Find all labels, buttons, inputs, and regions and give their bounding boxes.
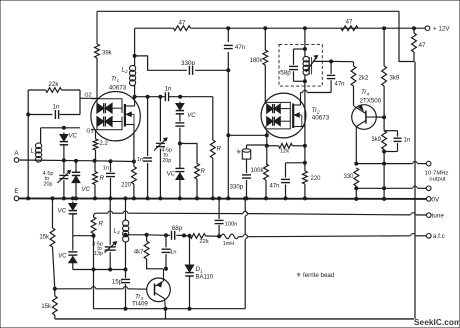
svg-text:47n: 47n <box>269 184 279 190</box>
wire +12V rail <box>135 27 425 29</box>
svg-text:2.2: 2.2 <box>100 141 109 147</box>
svg-text:R: R <box>99 221 104 228</box>
svg-text:SeekIC.com: SeekIC.com <box>414 318 460 327</box>
svg-text:330p: 330p <box>230 185 244 191</box>
capacitor 47n (rail decouple) <box>224 45 245 51</box>
wire drain node line <box>135 95 213 98</box>
wire +12V top distribution rail <box>97 11 414 61</box>
wire bottom rail <box>55 318 414 320</box>
varactor VC (input shunt) <box>72 159 91 200</box>
svg-text:330: 330 <box>343 174 354 180</box>
wire G2 lead <box>80 93 99 99</box>
svg-text:330p: 330p <box>181 60 196 67</box>
svg-text:58p: 58p <box>280 70 291 77</box>
wire RC to output <box>383 150 386 166</box>
wire G2 node vertical <box>79 90 81 115</box>
svg-text:VC: VC <box>58 254 67 260</box>
capacitor 330p (bead return) <box>230 175 251 200</box>
svg-text:22k: 22k <box>48 81 59 88</box>
note ferrite bead <box>296 271 335 279</box>
svg-text:2k2: 2k2 <box>359 76 369 82</box>
capacitor 100n <box>215 197 238 236</box>
transistor Tr1 40673 <box>91 76 140 141</box>
svg-text:✳: ✳ <box>296 271 302 279</box>
wire osc tank to Tr2 source <box>304 81 306 171</box>
svg-text:40673: 40673 <box>312 115 330 122</box>
svg-text:VC: VC <box>187 113 196 119</box>
svg-text:VC: VC <box>58 209 67 215</box>
wire left bias vertical <box>27 90 30 200</box>
wire osc riser <box>303 27 306 51</box>
wire varactor chain <box>178 128 181 167</box>
wire output line 1 <box>356 161 431 166</box>
wire 0V bus <box>17 197 429 200</box>
resistor 330 <box>343 168 358 186</box>
resistor 22k (afc) <box>184 234 221 245</box>
svg-text:E: E <box>14 188 18 195</box>
resistor 47 (right feed) <box>341 19 358 31</box>
svg-text:15p: 15p <box>112 280 123 286</box>
resistor 22k (G2 bias) <box>28 81 80 92</box>
wire Tr4 base node <box>376 116 385 131</box>
inductor L3 <box>114 197 129 242</box>
svg-text:12k: 12k <box>280 149 289 155</box>
svg-text:R: R <box>217 146 222 153</box>
wire osc af line <box>126 233 170 237</box>
varactor VC (afc lower) <box>58 236 77 270</box>
svg-text:40673: 40673 <box>109 85 127 92</box>
terminal a.f.c. <box>427 233 445 240</box>
svg-text:ferrite bead: ferrite bead <box>303 272 335 279</box>
resistor 3k9 (base) <box>371 131 386 150</box>
terminal E <box>14 188 19 201</box>
svg-text:220: 220 <box>121 183 132 189</box>
terminal A <box>14 150 19 162</box>
capacitor 1n (tank) <box>137 97 152 200</box>
wire Tr2 drain <box>301 90 332 92</box>
resistor 180k (G2 bias) <box>249 27 267 103</box>
capacitor 1n (base) <box>384 131 410 152</box>
wire tune line <box>94 211 427 218</box>
svg-text:VC: VC <box>167 172 176 178</box>
svg-text:G1: G1 <box>86 129 93 135</box>
trimmer 4.5-20p (osc) <box>154 97 172 200</box>
wire node A line <box>19 160 134 162</box>
wire Tr4 collector <box>355 131 358 165</box>
resistor 15k (lower) <box>41 287 57 319</box>
svg-text:✳: ✳ <box>236 148 242 156</box>
inductor 1mH rf choke <box>221 234 239 247</box>
varactor VC (tuning upper) <box>175 102 196 127</box>
svg-text:20p: 20p <box>44 181 53 187</box>
capacitor 1n (osc) <box>162 235 177 270</box>
svg-text:47: 47 <box>345 19 353 26</box>
svg-text:100n: 100n <box>225 222 238 228</box>
svg-text:G2: G2 <box>84 93 91 99</box>
svg-text:1n: 1n <box>52 103 60 110</box>
resistor 47 (top left feed) <box>174 20 191 31</box>
resistor R (drain node right) <box>210 97 221 200</box>
resistor 15k (upper) <box>39 197 55 289</box>
wire trimmer drop <box>109 198 111 269</box>
svg-text:+ 12V: + 12V <box>433 26 450 33</box>
wire emitter to D1 return <box>94 307 246 319</box>
oscillator screen (dashed box) <box>279 44 322 86</box>
svg-text:4k7: 4k7 <box>134 250 144 256</box>
wire L3 lower <box>125 242 127 279</box>
wire lower node <box>73 268 127 271</box>
wire Tr2 G1 to 12k <box>265 130 268 164</box>
svg-text:13p: 13p <box>94 251 103 257</box>
svg-text:68p: 68p <box>172 225 183 232</box>
transistor Tr4 2TX500 <box>352 89 382 131</box>
wire Tr3 base line <box>55 287 153 290</box>
svg-text:BA110: BA110 <box>196 275 214 281</box>
svg-text:a.f.c: a.f.c <box>433 233 445 240</box>
inductor L4 oscillator coil <box>303 49 318 83</box>
resistor 2k2 <box>351 62 369 106</box>
svg-text:15k: 15k <box>41 304 52 310</box>
resistor 39k (G2 feed) <box>95 44 113 98</box>
varactor VC (tuning lower) <box>167 167 185 200</box>
terminal 0V <box>426 196 440 203</box>
inductor L1 <box>31 128 42 162</box>
capacitor 15p <box>112 279 130 310</box>
varactor VC (input, on L1 link) <box>60 133 78 162</box>
resistor 2.2 (G1) <box>93 130 108 161</box>
svg-text:47: 47 <box>419 42 427 49</box>
svg-text:1n: 1n <box>404 138 411 144</box>
wire afc line <box>239 234 427 237</box>
label 10.7MHz output <box>425 171 449 183</box>
svg-text:47n: 47n <box>235 45 245 51</box>
wire L1 top link <box>41 126 80 129</box>
capacitor 58p <box>280 49 305 81</box>
svg-text:VC: VC <box>69 134 78 140</box>
svg-text:1n: 1n <box>103 166 109 172</box>
wire to R lower <box>180 144 197 164</box>
transistor Tr2 40673 <box>261 93 330 138</box>
wire D1 return riser <box>244 197 248 309</box>
svg-text:R: R <box>100 175 105 182</box>
svg-text:22k: 22k <box>199 239 208 245</box>
watermark SeekIC.com <box>414 318 460 327</box>
svg-text:20p: 20p <box>162 158 171 164</box>
svg-text:100k: 100k <box>250 168 264 174</box>
svg-text:3k9: 3k9 <box>371 137 381 143</box>
capacitor 1n (G2 bypass) <box>28 103 80 119</box>
resistor R (tune feed) <box>91 217 103 309</box>
svg-text:output: output <box>429 177 446 183</box>
wire right-hand vertical to bottom rail <box>414 62 416 319</box>
wire G1 Tr2 link <box>228 134 268 137</box>
ferrite bead on G1 return <box>236 145 267 173</box>
resistor R (G1 lower) <box>93 159 105 200</box>
wire osc tap output <box>314 60 354 63</box>
svg-text:TI409: TI409 <box>132 301 148 308</box>
svg-text:47: 47 <box>178 20 186 27</box>
capacitor 1n (drain node) <box>164 85 172 101</box>
terminal +12V <box>425 26 450 33</box>
trimmer 4.5-20p (input) <box>43 160 71 200</box>
wire afc varactor node <box>73 234 95 237</box>
transistor Tr3 TI409 <box>132 269 170 309</box>
capacitor 68p <box>172 225 186 240</box>
svg-text:R: R <box>201 168 206 175</box>
capacitor 1n (source bypass) <box>103 160 115 200</box>
wire output line 2 <box>355 164 431 201</box>
svg-text:0V: 0V <box>432 196 441 203</box>
label G1 <box>86 129 93 135</box>
varactor VC (afc upper) <box>58 197 77 236</box>
resistor 4k7 <box>134 235 163 269</box>
svg-text:3k9: 3k9 <box>390 76 400 82</box>
svg-text:1n: 1n <box>170 250 176 256</box>
svg-text:VC: VC <box>82 187 91 193</box>
svg-text:1mH: 1mH <box>223 241 234 247</box>
resistor 100k <box>250 164 268 200</box>
svg-text:220: 220 <box>311 176 322 182</box>
resistor R (osc pull) <box>195 164 206 200</box>
svg-text:1n: 1n <box>164 85 172 92</box>
resistor 47 (decoupling, vertical) <box>412 27 426 62</box>
svg-text:1n: 1n <box>137 157 143 163</box>
trimmer 3.5-13p <box>92 241 116 257</box>
svg-text:2TX500: 2TX500 <box>360 98 382 105</box>
terminal tune <box>427 212 445 219</box>
capacitor 47n (osc coupling) <box>327 61 345 92</box>
wire 330p feed vertical <box>227 27 230 200</box>
resistor 12k <box>267 143 305 154</box>
resistor 3k9 (bias) <box>382 27 400 118</box>
wire drain vertical <box>133 28 136 98</box>
wire L2 tap to 330p <box>135 56 187 70</box>
resistor 220 (Tr2 source) <box>303 144 322 200</box>
capacitor 330p (coupling) <box>181 60 228 75</box>
inductor L2 <box>122 65 136 85</box>
capacitor 47n (source bypass) <box>269 161 306 200</box>
resistor 220 (source) <box>121 134 136 200</box>
svg-text:39k: 39k <box>102 51 113 57</box>
svg-text:15k: 15k <box>39 235 50 241</box>
svg-text:180k: 180k <box>249 58 263 64</box>
svg-text:tune: tune <box>432 212 445 219</box>
svg-text:47n: 47n <box>335 82 345 88</box>
varactor D1 BA110 <box>185 234 213 310</box>
